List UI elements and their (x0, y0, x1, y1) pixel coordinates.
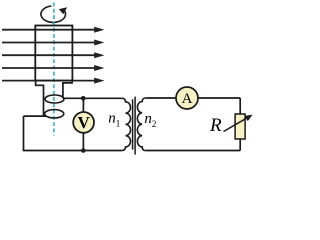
field line B1 (2, 27, 104, 33)
field line B2 (2, 40, 104, 46)
wire: secondary top (146, 97, 240, 99)
wire: left vertical (23, 116, 25, 150)
svg-text:V: V (77, 113, 90, 132)
transformer core (133, 97, 136, 155)
voltmeter V (73, 112, 94, 133)
field line B4 (2, 65, 104, 71)
svg-text:A: A (182, 91, 193, 107)
ammeter A (176, 87, 198, 109)
wire: top (brush ring 1 to transformer primary) (63, 97, 122, 99)
transformer secondary winding n2 (137, 98, 146, 151)
node (top junction) (81, 96, 86, 101)
rheostat R body (235, 114, 245, 139)
wire: brush on ring 2 to left (24, 115, 47, 117)
field line B3 (2, 52, 104, 58)
rotation arrow (about vertical axis) (41, 6, 66, 22)
field line B5 (2, 78, 104, 84)
svg-text:R: R (209, 115, 222, 136)
wire: right vertical (239, 98, 241, 114)
transformer primary winding n1 (122, 98, 131, 150)
coil lead left (to slip ring 2) (36, 81, 44, 117)
coil lead right (to slip ring 1) (63, 81, 72, 99)
rotating coil frame (35, 26, 72, 81)
wire: voltmeter branch (82, 98, 84, 150)
rotation arrowhead (59, 7, 67, 14)
slip ring 2 (45, 110, 64, 118)
rheostat R wiper arrow (224, 115, 253, 132)
node (bottom junction) (81, 148, 86, 153)
wire: secondary bottom (146, 150, 240, 152)
dashed axis line (53, 3, 55, 136)
slip ring 1 (45, 95, 64, 103)
wire: bottom (left circuit) (23, 150, 122, 152)
